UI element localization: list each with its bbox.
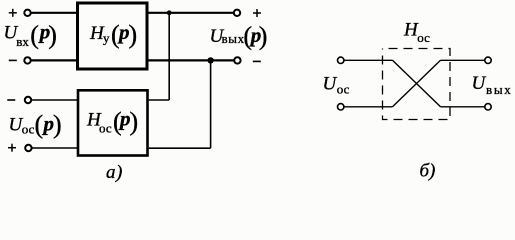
svg-text:ос: ос [417,30,430,45]
wire left-bottom into box [344,106,393,108]
svg-text:вх: вх [16,34,29,49]
minus sign output bottom-right [253,60,261,62]
svg-text:а): а) [106,162,123,183]
terminal left-bottom b [338,104,344,110]
dashed box Hoc [383,49,451,120]
svg-text:): ) [130,107,139,136]
svg-text:ос: ос [22,122,35,137]
wire diagonal TL-BR [393,60,441,107]
wire feedback into Hoc right bottom [149,147,211,149]
plus sign input top-left [9,9,17,17]
wire input top [31,12,76,14]
label Hy(p) [89,20,137,49]
svg-text:ос: ос [99,120,112,135]
label Uvyx b [472,73,513,97]
block Hy(p) U1 [78,3,148,69]
terminal left-top b [338,57,344,63]
svg-text:вых: вых [486,82,512,97]
label Hoc(p) [86,107,138,136]
terminal - input bottom-left [24,57,30,63]
wire right-top out of box [441,59,485,61]
terminal - feedback top-left [25,97,31,103]
svg-text:U: U [472,73,487,94]
plus sign feedback bottom-left [8,144,16,152]
wire left-top into box [344,59,393,61]
label Uvx(p) [4,20,57,50]
wire feedback input top [31,99,77,101]
wire output top [149,12,234,14]
svg-text:вых: вых [222,31,245,46]
label Uoc(p) [9,110,62,139]
label Uvyx(p) [210,21,268,50]
svg-text:(: ( [35,110,44,139]
wire output bottom [149,59,235,61]
wire feedback vertical right [210,60,212,148]
label Hoc above dashed box [403,20,430,45]
minus sign input bottom-left [9,59,17,61]
label Uoc b [323,73,350,96]
svg-text:): ) [259,21,268,50]
terminal + feedback bottom-left [25,145,31,151]
svg-text:б): б) [420,161,436,182]
svg-text:): ) [53,110,62,139]
plus sign output top-right [253,9,261,17]
junction node A [167,10,172,15]
wire diagonal BL-TR [393,60,441,107]
svg-text:U: U [323,73,338,94]
junction node B [207,57,213,63]
terminal right-top b [485,57,491,63]
svg-text:ос: ос [337,82,350,97]
terminal + input top-left [24,10,30,16]
svg-text:у: у [103,31,110,46]
terminal + output top-right [234,10,240,16]
wire right-bottom out of box [441,106,485,108]
wire feedback input bottom [32,147,77,149]
svg-text:): ) [48,20,57,49]
wire input bottom [31,59,76,61]
wire feedback vertical left [168,13,170,100]
block Hoc(p) U2 [78,90,148,155]
svg-text:): ) [129,20,138,49]
terminal right-bottom b [485,104,491,110]
minus sign feedback top-left [7,99,15,101]
terminal - output bottom-right [234,57,240,63]
wire feedback into Hoc right top [149,99,170,101]
svg-text:(: ( [30,20,39,49]
